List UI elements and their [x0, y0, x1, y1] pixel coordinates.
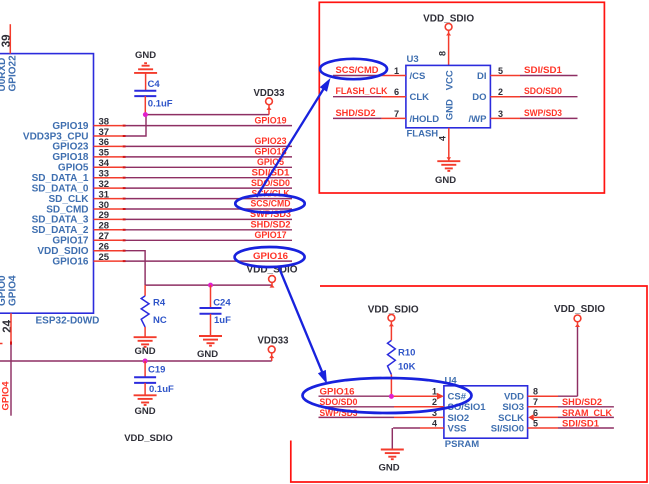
svg-text:/HOLD: /HOLD	[410, 114, 440, 125]
U3 left wire FLASH_CLK	[333, 96, 382, 98]
svg-text:C19: C19	[148, 365, 165, 376]
svg-text:GPIO16: GPIO16	[253, 251, 288, 262]
U4 VSS down wire	[391, 428, 393, 450]
svg-text:SDO/SD0: SDO/SD0	[251, 178, 290, 189]
C4 top stem	[145, 73, 147, 91]
svg-text:GND: GND	[134, 346, 155, 357]
wire VDD33 rail horizontal	[0, 360, 272, 362]
wire pin26 VDD_SDIO down	[125, 251, 145, 285]
svg-text:C4: C4	[148, 79, 161, 90]
ESP32 pin 33 stub	[94, 177, 123, 179]
flash chip U3 body	[406, 65, 491, 127]
U4 right wire SHD/SD2	[528, 406, 558, 408]
annotation box around flash U3 section	[319, 2, 604, 193]
ESP32 pin 29 stub	[94, 218, 123, 220]
junction C19 node	[143, 359, 148, 364]
svg-text:VDD_SDIO: VDD_SDIO	[554, 304, 605, 315]
ground below C24	[199, 335, 222, 337]
highlight ellipse GPIO16 (U4 side)	[303, 378, 472, 413]
R10 top stub	[390, 321, 392, 340]
svg-text:VSS: VSS	[448, 423, 467, 434]
svg-text:U0RXD: U0RXD	[0, 58, 8, 92]
junction R10 node	[389, 394, 394, 399]
svg-text:SD_DATA_1: SD_DATA_1	[32, 173, 89, 184]
U4 right wire SDI/SD1	[528, 427, 558, 429]
U4 right wire SRAM_CLK	[534, 416, 558, 418]
svg-text:8: 8	[533, 387, 538, 397]
C4 bottom stem	[144, 96, 146, 115]
svg-text:0.1uF: 0.1uF	[148, 98, 173, 109]
U3 right wire SWP/SD3	[490, 117, 520, 119]
arrow SCS/CMD to U3	[257, 85, 327, 197]
svg-text:0.1uF: 0.1uF	[149, 384, 174, 395]
resistor R4	[141, 296, 149, 327]
U4 VDD rail vertical	[577, 326, 579, 397]
pin 39 wire stub	[9, 24, 11, 53]
R4 bottom stub	[144, 327, 146, 337]
svg-text:PSRAM: PSRAM	[445, 439, 479, 450]
junction C24 node	[208, 283, 213, 288]
svg-text:GND: GND	[435, 175, 456, 186]
ground below U3	[437, 160, 460, 162]
ESP32 pin 34 stub	[94, 166, 123, 168]
svg-text:VDD_SDIO: VDD_SDIO	[124, 433, 173, 444]
U3 left wire SHD/SD2	[333, 117, 382, 119]
svg-text:VDD_SDIO: VDD_SDIO	[37, 246, 88, 257]
svg-text:GPIO17: GPIO17	[52, 236, 89, 247]
svg-text:SDI/SD1: SDI/SD1	[524, 65, 563, 76]
U4 left wire SDO/SD0	[319, 406, 395, 408]
U4 VDD wire pin 8	[528, 395, 558, 397]
ESP32 pin 32 stub	[94, 187, 123, 189]
svg-text:GND: GND	[445, 99, 456, 120]
svg-text:FLASH_CLK: FLASH_CLK	[336, 86, 388, 97]
U3 right wire SDO/SD0	[490, 96, 520, 98]
ESP32 chip U-body	[0, 54, 94, 314]
svg-text:39: 39	[1, 35, 13, 48]
svg-text:SIO3: SIO3	[502, 402, 524, 413]
svg-text:4: 4	[432, 418, 437, 428]
capacitor C4	[134, 90, 156, 92]
VDD33 stub	[268, 105, 270, 115]
ground below C19	[134, 394, 157, 396]
wire VDD_SDIO rail horizontal	[145, 284, 272, 286]
svg-text:6: 6	[533, 408, 538, 418]
wire pin 31	[125, 198, 292, 200]
ESP32 pin 25 stub	[94, 260, 123, 262]
svg-text:DI: DI	[477, 71, 487, 82]
svg-text:1uF: 1uF	[214, 315, 231, 326]
ESP32 pin 35 stub	[94, 156, 123, 158]
U4 left wire SWP/SD3	[319, 416, 395, 418]
svg-text:SWP/SD3: SWP/SD3	[524, 108, 562, 119]
svg-text:GPIO17: GPIO17	[255, 230, 287, 241]
ESP32 pin 27 stub	[94, 239, 123, 241]
ESP32 pin 31 stub	[94, 198, 123, 200]
svg-text:3: 3	[498, 109, 503, 119]
svg-text:CS#: CS#	[448, 392, 467, 403]
U3 GND wire pin 4	[448, 128, 450, 161]
svg-text:VDD: VDD	[504, 392, 524, 403]
svg-text:R4: R4	[153, 298, 166, 309]
svg-text:ESP32-D0WD: ESP32-D0WD	[36, 316, 100, 327]
R4 top stub	[144, 285, 146, 296]
ESP32 pin 38 stub	[94, 125, 123, 127]
wire pin 35	[125, 156, 292, 158]
C24 bottom stub	[210, 314, 212, 336]
svg-text:GPIO23: GPIO23	[52, 142, 89, 153]
svg-text:2: 2	[498, 87, 503, 97]
wire pin 38	[125, 125, 292, 127]
svg-text:10K: 10K	[398, 362, 416, 373]
svg-text:SD_CMD: SD_CMD	[46, 204, 88, 215]
wire pin 30	[125, 208, 292, 210]
svg-text:GPIO16: GPIO16	[52, 256, 89, 267]
svg-text:GPIO5: GPIO5	[58, 163, 89, 174]
svg-text:SCLK: SCLK	[498, 413, 524, 424]
svg-text:SDI/SD1: SDI/SD1	[562, 418, 600, 429]
U3 right wire SDI/SD1	[490, 75, 520, 77]
U4 pin 6 input arrow	[528, 414, 534, 421]
junction C4 node	[143, 112, 148, 117]
svg-text:GND: GND	[135, 50, 156, 61]
ESP32 pin 28 stub	[94, 229, 123, 231]
VDD33 lower stub	[271, 353, 273, 361]
svg-text:GPIO16: GPIO16	[320, 387, 355, 398]
U4 pin 1 input arrow	[437, 393, 444, 400]
svg-text:U3: U3	[407, 54, 419, 65]
wire pin 36	[125, 145, 292, 147]
svg-text:C24: C24	[213, 298, 231, 309]
R10 bottom stub	[390, 375, 392, 397]
svg-text:DO: DO	[472, 92, 486, 103]
svg-text:SI/SIO0: SI/SIO0	[491, 423, 524, 434]
svg-text:24: 24	[2, 319, 14, 332]
pin 23 stub sliver (cut off at edge)	[0, 343, 3, 345]
psram chip U4 body	[444, 386, 528, 438]
svg-text:GND: GND	[197, 349, 218, 360]
svg-text:SHD/SD2: SHD/SD2	[562, 397, 602, 408]
svg-text:SDO/SD0: SDO/SD0	[524, 86, 562, 97]
highlight ellipse GPIO16 (ESP32 side)	[235, 247, 305, 267]
svg-text:GND: GND	[134, 406, 155, 417]
wire pin 34	[125, 166, 292, 168]
svg-text:GPIO4: GPIO4	[1, 381, 12, 411]
wire pin 29	[125, 218, 292, 220]
svg-text:1: 1	[432, 387, 437, 397]
svg-text:6: 6	[394, 87, 399, 97]
svg-text:GPIO0: GPIO0	[0, 275, 8, 306]
highlight ellipse SCS/CMD (ESP32 side)	[235, 195, 304, 213]
wire pin 28	[125, 229, 292, 231]
svg-text:VDD33: VDD33	[258, 335, 289, 346]
ground symbol above C4 (inverted)	[134, 72, 157, 74]
ESP32 pin 37 stub	[94, 135, 123, 137]
svg-text:FLASH: FLASH	[407, 129, 439, 140]
arrow GPIO16 to U4	[279, 267, 325, 377]
svg-text:SCS/CMD: SCS/CMD	[251, 199, 291, 210]
pin 24 wire stub	[10, 313, 12, 341]
svg-text:1: 1	[394, 66, 399, 76]
wire net GPIO4 vertical	[10, 345, 12, 416]
svg-text:SRAM_CLK: SRAM_CLK	[562, 408, 612, 419]
svg-text:SD_CLK: SD_CLK	[48, 194, 89, 205]
ESP32 pin 36 stub	[94, 145, 123, 147]
svg-text:/CS: /CS	[410, 71, 426, 82]
ESP32 pin 26 stub	[94, 250, 123, 252]
wire pin 33	[125, 177, 292, 179]
svg-text:VDD3P3_CPU: VDD3P3_CPU	[23, 131, 89, 142]
svg-text:CLK: CLK	[410, 92, 430, 103]
svg-text:VCC: VCC	[445, 70, 456, 90]
svg-text:2: 2	[432, 397, 437, 407]
ground below U4	[381, 449, 404, 451]
wire pin 25	[125, 260, 292, 262]
highlight ellipse SCS/CMD (U3 side)	[320, 59, 387, 79]
svg-text:SHD/SD2: SHD/SD2	[336, 108, 376, 119]
capacitor C19	[134, 376, 156, 378]
U3 left wire SCS/CMD	[333, 75, 382, 77]
svg-text:NC: NC	[153, 315, 167, 326]
C24 top stub	[210, 285, 212, 308]
C19 top stub	[144, 361, 146, 377]
resistor R10	[388, 340, 396, 374]
svg-text:4: 4	[438, 136, 448, 141]
svg-text:GPIO19: GPIO19	[255, 115, 287, 126]
capacitor C24	[200, 307, 222, 309]
svg-text:SHD/SD2: SHD/SD2	[251, 220, 291, 231]
U3 VCC wire pin 8	[448, 30, 450, 65]
wire pin 27	[125, 239, 292, 241]
svg-text:GND: GND	[378, 462, 399, 473]
svg-text:8: 8	[438, 51, 448, 56]
svg-text:GPIO4: GPIO4	[8, 275, 19, 306]
annotation box around psram U4 section	[291, 286, 647, 482]
ESP32 pin 30 stub	[94, 208, 123, 210]
VDD_SDIO mid stub	[271, 282, 273, 285]
ground below R4	[134, 336, 157, 338]
svg-text:SD_DATA_2: SD_DATA_2	[32, 225, 89, 236]
svg-text:SCS/CMD: SCS/CMD	[336, 65, 379, 76]
svg-text:GPIO18: GPIO18	[52, 152, 89, 163]
svg-text:VDD_SDIO: VDD_SDIO	[368, 304, 419, 315]
U4 wire GPIO16 pin 1	[319, 395, 392, 397]
svg-text:5: 5	[533, 418, 538, 428]
svg-text:GPIO23: GPIO23	[255, 136, 287, 147]
svg-text:SD_DATA_3: SD_DATA_3	[32, 215, 89, 226]
svg-text:7: 7	[394, 109, 399, 119]
C19 bottom stub	[144, 383, 146, 395]
svg-text:SIO2: SIO2	[448, 413, 470, 424]
svg-text:SD_DATA_0: SD_DATA_0	[32, 183, 89, 194]
svg-text:7: 7	[533, 397, 538, 407]
wire pin 32	[125, 187, 292, 189]
wire C4 node to VDD33	[146, 114, 269, 116]
svg-text:GPIO19: GPIO19	[52, 121, 89, 132]
svg-text:5: 5	[498, 66, 503, 76]
wire pin37 to C4 node	[125, 115, 146, 136]
svg-text:/WP: /WP	[469, 114, 488, 125]
U4 VSS wire pin 4	[393, 427, 420, 429]
svg-text:R10: R10	[398, 348, 415, 359]
svg-text:GPIO22: GPIO22	[8, 55, 19, 92]
